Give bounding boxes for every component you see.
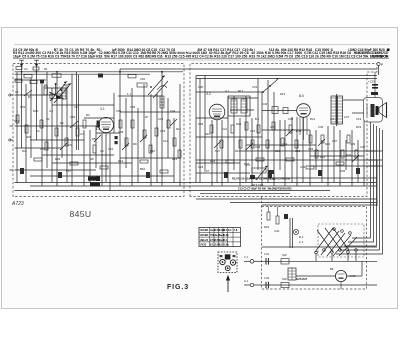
svg-text:UBL21: UBL21 xyxy=(200,238,209,242)
svg-text:R32: R32 xyxy=(236,122,242,126)
svg-text:C35: C35 xyxy=(288,117,294,121)
svg-text:C55: C55 xyxy=(116,109,122,113)
label C38 xyxy=(330,267,356,278)
svg-text:6.3b: 6.3b xyxy=(224,233,230,237)
capacitor C41 xyxy=(262,258,268,265)
tube V1 UCH21 envelope xyxy=(98,117,113,132)
wire top right link xyxy=(120,69,377,183)
label R25 C43 xyxy=(299,235,304,244)
svg-text:R23: R23 xyxy=(346,153,352,157)
svg-text:C52: C52 xyxy=(20,105,26,109)
wires vertical runs right box xyxy=(200,76,364,187)
loudspeaker xyxy=(364,98,387,123)
svg-text:R18: R18 xyxy=(275,149,281,153)
tube V4 internals xyxy=(338,274,345,289)
svg-text:C14: C14 xyxy=(163,139,169,143)
resistors and capacitors right box xyxy=(210,122,358,169)
svg-text:16μF C5 0.2M 75 C16 R19 C3 75: 16μF C5 0.2M 75 C16 R19 C3 75 xyxy=(13,54,64,58)
svg-text:R4: R4 xyxy=(22,149,26,153)
svg-text:250 C19 110 2k 250 R9 C10 1M: 250 C19 110 2k 250 R9 C10 1M xyxy=(295,54,344,58)
svg-text:R9: R9 xyxy=(133,142,137,146)
labels volume cluster xyxy=(246,163,276,187)
svg-text:R13 C44: R13 C44 xyxy=(252,183,263,187)
svg-text:R15: R15 xyxy=(205,132,211,136)
svg-text:B.5: B.5 xyxy=(299,94,304,98)
svg-text:C26: C26 xyxy=(198,165,204,169)
svg-text:C12 C3 C14 50k: C12 C3 C14 50k xyxy=(344,54,368,58)
svg-text:C5: C5 xyxy=(74,105,78,109)
parts list underline xyxy=(13,57,389,59)
parts list gaps xyxy=(38,47,348,52)
svg-text:C22: C22 xyxy=(250,129,256,133)
svg-text:G25-D27: G25-D27 xyxy=(296,277,308,281)
capacitor C-cath V1 xyxy=(115,136,118,144)
wires right mid horizontals xyxy=(262,151,383,205)
svg-text:C13 C5 C7 90pF R3 495: C13 C5 C7 90pF R3 495 xyxy=(238,187,267,191)
svg-text:R.3: R.3 xyxy=(299,235,304,239)
coil L2 xyxy=(160,96,164,108)
svg-text:C36: C36 xyxy=(318,125,324,129)
misc diagonal strokes xyxy=(24,90,359,162)
junction dots top bus xyxy=(21,71,163,73)
svg-text:C41: C41 xyxy=(264,252,270,256)
chassis dashed box left (RF/IF section) xyxy=(13,64,184,197)
svg-text:C46: C46 xyxy=(300,165,306,169)
svg-text:R10: R10 xyxy=(150,149,156,153)
pickup terminal P xyxy=(377,62,383,75)
misc reference labels xyxy=(14,105,366,173)
svg-text:R10 2MΩ R9 C16: R10 2MΩ R9 C16 xyxy=(139,54,163,58)
component labels left box xyxy=(15,77,181,153)
electrolytic capacitors right box xyxy=(224,168,360,178)
svg-text:R13 250 C15 495 R12 C4 C2: R13 250 C15 495 R12 C4 C2 xyxy=(165,54,209,58)
svg-text:C2: C2 xyxy=(24,67,28,71)
svg-text:C21: C21 xyxy=(222,127,228,131)
wire top bus 2 left box xyxy=(15,73,151,75)
svg-text:8.1: 8.1 xyxy=(224,238,228,242)
tube V3 UBL21 envelope xyxy=(297,104,311,118)
components top left corner xyxy=(16,67,48,72)
svg-text:B6: B6 xyxy=(330,267,334,271)
tube V1 side contact xyxy=(97,121,100,128)
svg-text:R16: R16 xyxy=(235,149,241,153)
svg-text:R35: R35 xyxy=(340,169,346,173)
svg-text:R13 R2 50 C18 C4: R13 R2 50 C18 C4 xyxy=(232,177,255,181)
wire PSU mid rail xyxy=(262,260,377,262)
svg-text:C37: C37 xyxy=(344,115,350,119)
svg-text:B64: B64 xyxy=(140,167,145,171)
svg-text:A.1: A.1 xyxy=(244,279,249,283)
svg-text:R29: R29 xyxy=(55,157,61,161)
svg-text:4.2: 4.2 xyxy=(80,132,84,136)
svg-text:R1: R1 xyxy=(28,95,32,99)
resistor R27 xyxy=(281,282,289,287)
tube V1 grids xyxy=(101,122,111,130)
svg-text:UY21: UY21 xyxy=(200,243,207,247)
capacitor C20 xyxy=(368,80,378,96)
wire rectifier row xyxy=(296,261,362,276)
svg-text:R14: R14 xyxy=(172,157,178,161)
svg-text:C67: C67 xyxy=(204,169,210,173)
parts list rule top xyxy=(14,44,390,46)
svg-text:4-2: 4-2 xyxy=(49,109,53,113)
svg-text:C58: C58 xyxy=(118,130,124,134)
output transformer T3 xyxy=(331,94,343,126)
svg-text:C9: C9 xyxy=(100,149,104,153)
svg-text:B.1: B.1 xyxy=(255,117,260,121)
tuning gang C-var 2 xyxy=(137,71,168,98)
wire top bus 2 right box xyxy=(196,78,377,80)
svg-text:R2: R2 xyxy=(60,121,64,125)
svg-text:3.1: 3.1 xyxy=(100,107,105,111)
wires selector to rails xyxy=(316,252,356,261)
terminal marks left edge xyxy=(9,94,13,170)
svg-text:C59: C59 xyxy=(130,105,136,109)
dashed link line xyxy=(261,197,263,207)
svg-text:C56: C56 xyxy=(70,115,76,119)
svg-text:R28: R28 xyxy=(26,135,32,139)
svg-text:C25: C25 xyxy=(308,147,314,151)
chassis dashed box right (AF/output section) xyxy=(190,64,377,197)
mains voltage selector switch xyxy=(315,224,364,257)
svg-text:C64: C64 xyxy=(170,109,176,113)
svg-text:C1: C1 xyxy=(15,90,19,94)
svg-text:UCH21: UCH21 xyxy=(200,233,209,237)
svg-text:2.1: 2.1 xyxy=(244,255,248,259)
svg-text:C66: C66 xyxy=(198,122,204,126)
tube V4 UY21 rectifier xyxy=(335,270,346,281)
svg-text:C34: C34 xyxy=(262,102,268,106)
svg-text:R17: R17 xyxy=(238,89,244,93)
svg-text:R31: R31 xyxy=(210,159,216,163)
svg-text:R7: R7 xyxy=(145,115,149,119)
svg-text:R21: R21 xyxy=(310,117,316,121)
svg-text:S/R: S/R xyxy=(282,253,287,257)
svg-text:R30: R30 xyxy=(33,109,39,113)
svg-text:C13: C13 xyxy=(158,117,164,121)
potentiometer R-vol xyxy=(250,166,274,180)
svg-text:R33: R33 xyxy=(296,129,302,133)
svg-text:S1: S1 xyxy=(63,83,67,87)
svg-text:1.2: 1.2 xyxy=(96,127,100,131)
svg-text:R34: R34 xyxy=(244,162,250,166)
scale lamp xyxy=(293,229,298,234)
svg-text:R3: R3 xyxy=(86,113,90,117)
tuning gang C-var 1 xyxy=(49,81,72,103)
svg-text:C60: C60 xyxy=(140,77,146,81)
mains terminals xyxy=(244,260,262,287)
wires AF to PSU xyxy=(196,160,377,206)
parts list underline 2 xyxy=(150,59,300,61)
svg-text:C29: C29 xyxy=(295,149,301,153)
barretter lamp xyxy=(288,268,296,280)
svg-text:3k R10 220 C17 100 250: 3k R10 220 C17 100 250 xyxy=(209,54,247,58)
svg-text:C42: C42 xyxy=(264,276,270,280)
svg-text:R22: R22 xyxy=(320,155,326,159)
svg-text:R1: R1 xyxy=(44,67,48,71)
svg-text:C3: C3 xyxy=(44,83,48,87)
svg-text:3.2: 3.2 xyxy=(206,92,211,96)
svg-text:FIG.3: FIG.3 xyxy=(167,284,189,291)
wires horizontal runs left box xyxy=(15,80,181,176)
svg-text:+C20: +C20 xyxy=(368,80,375,84)
svg-text:R18 70 C7 C16 16μF R18: R18 70 C7 C16 16μF R18 xyxy=(64,54,102,58)
wire PSU top rail xyxy=(262,246,377,248)
component labels right box xyxy=(198,85,362,169)
svg-text:845U: 845U xyxy=(70,209,92,219)
IF transformer T2 xyxy=(228,96,250,116)
svg-text:C.1: C.1 xyxy=(299,240,304,244)
antenna terminal A1 xyxy=(19,60,24,72)
svg-text:C31: C31 xyxy=(252,85,258,89)
svg-text:C28: C28 xyxy=(255,145,261,149)
wire bottom bus 2 xyxy=(30,185,377,187)
resistor R26 xyxy=(281,259,289,264)
wire barretter up xyxy=(290,218,293,248)
svg-text:R8: R8 xyxy=(90,157,94,161)
svg-text:C53: C53 xyxy=(14,119,20,123)
components PSU upper xyxy=(264,207,288,234)
valve base pinout diagram xyxy=(218,252,237,273)
wire bottom bus 4 xyxy=(200,192,290,194)
antenna terminal A2 xyxy=(34,60,39,72)
svg-text:2k C2 30k 3k 220 C3 R8 30k: 2k C2 30k 3k 220 C3 R8 30k xyxy=(255,177,291,181)
valve data table xyxy=(199,228,241,247)
components on top bus xyxy=(15,74,136,84)
resistors and capacitors left box xyxy=(16,115,181,173)
svg-text:C19: C19 xyxy=(356,117,362,121)
tube V3 grids xyxy=(299,108,308,114)
svg-text:C27: C27 xyxy=(215,149,221,153)
svg-text:C61: C61 xyxy=(108,147,114,151)
svg-text:4.5: 4.5 xyxy=(270,125,274,129)
wire bottom bus 1 xyxy=(15,182,378,184)
switch S-band diagonal xyxy=(262,78,279,93)
pinout view arrow xyxy=(226,275,230,292)
svg-text:C40: C40 xyxy=(274,229,280,233)
svg-text:R23: R23 xyxy=(356,125,362,129)
bottom caption row right box xyxy=(232,177,292,191)
svg-text:P: P xyxy=(381,63,383,67)
coil L1 xyxy=(44,86,66,99)
resistor R20 by V3 xyxy=(262,107,307,141)
svg-text:50k R17 100 2000 C3: 50k R17 100 2000 C3 xyxy=(104,54,137,58)
capacitor C42 xyxy=(266,282,268,289)
wire bundle right edge xyxy=(371,122,383,254)
wires horizontal runs right box xyxy=(196,92,377,178)
svg-text:C39: C39 xyxy=(350,142,356,146)
electrolytic capacitors left box xyxy=(20,168,150,181)
wires vertical runs left box xyxy=(17,72,180,191)
dark label B64 C65 xyxy=(88,177,100,187)
svg-text:C54: C54 xyxy=(40,147,46,151)
svg-text:A723: A723 xyxy=(11,201,24,207)
svg-text:R19 70 1k2 2MΩ 0.5M 75 C6: R19 70 1k2 2MΩ 0.5M 75 C6 xyxy=(249,54,293,58)
svg-text:4.1: 4.1 xyxy=(225,89,229,93)
tube V2 UCH21 envelope xyxy=(209,104,225,120)
svg-text:6.3b: 6.3b xyxy=(224,243,230,247)
svg-text:R19: R19 xyxy=(280,92,286,96)
svg-text:C6: C6 xyxy=(68,143,72,147)
svg-text:C30: C30 xyxy=(198,85,204,89)
svg-text:C47: C47 xyxy=(360,145,366,149)
wire bottom bus 3 xyxy=(15,190,331,192)
wire top bus left box xyxy=(15,71,184,73)
svg-text:UCH21: UCH21 xyxy=(200,228,209,232)
wire bundle bends xyxy=(336,238,383,254)
tube V2 grids xyxy=(212,109,222,117)
svg-text:60k 2MΩ R15 R16 R15: 60k 2MΩ R15 R16 R15 xyxy=(268,187,293,191)
svg-text:C63: C63 xyxy=(160,129,166,133)
svg-text:S2: S2 xyxy=(46,117,50,121)
svg-text:1.1: 1.1 xyxy=(127,92,131,96)
svg-text:7-8: 7-8 xyxy=(234,228,238,232)
wire speaker feed xyxy=(343,72,375,113)
svg-text:S/R: S/R xyxy=(282,277,287,281)
svg-text:C4: C4 xyxy=(36,129,40,133)
svg-text:C57: C57 xyxy=(66,169,72,173)
svg-text:R24: R24 xyxy=(264,225,270,229)
svg-text:C24: C24 xyxy=(282,142,288,146)
svg-text:R11: R11 xyxy=(176,127,181,131)
wire PSU low rail xyxy=(262,284,377,286)
svg-text:1M 90pF 75 R20 90pF C13 8k: 1M 90pF 75 R20 90pF C13 8k xyxy=(370,54,389,58)
power-supply dashed box xyxy=(262,207,367,290)
svg-text:C37: C37 xyxy=(332,139,338,143)
svg-text:R22: R22 xyxy=(325,142,331,146)
wire top bus right box xyxy=(196,75,377,77)
label mains xyxy=(244,252,287,283)
svg-text:8.1: 8.1 xyxy=(228,228,232,232)
svg-text:R12: R12 xyxy=(118,159,124,163)
